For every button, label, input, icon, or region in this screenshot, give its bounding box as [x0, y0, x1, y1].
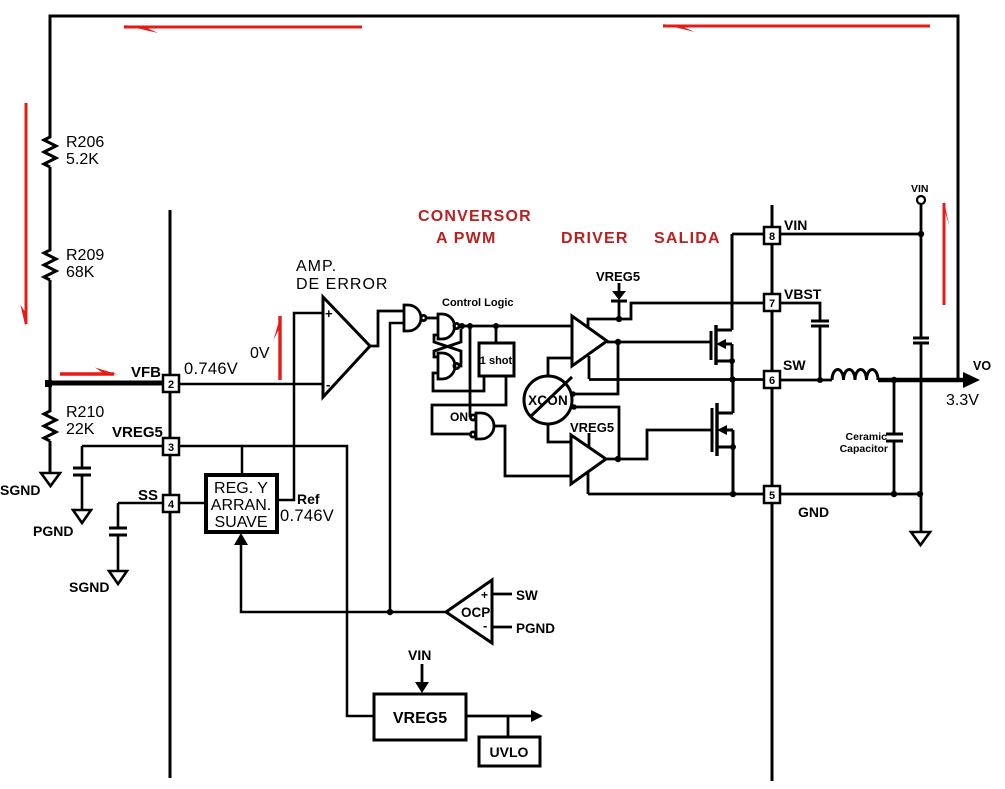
pin 5 GND: [764, 486, 780, 503]
wire SW rail: [589, 378, 764, 381]
wire junction down to 1 shot: [495, 326, 498, 343]
svg-text:REG. Y: REG. Y: [214, 480, 268, 497]
wire latch output to driver: [459, 325, 572, 328]
svg-text:VREG5: VREG5: [596, 269, 640, 284]
pin 4 SS: [163, 495, 179, 512]
svg-text:VFB: VFB: [131, 364, 161, 381]
wire SS pin4 left to cap: [118, 502, 164, 505]
svg-text:Control Logic: Control Logic: [442, 297, 514, 309]
svg-text:XCON: XCON: [528, 393, 568, 408]
svg-text:Capacitor: Capacitor: [840, 443, 888, 455]
svg-text:PGND: PGND: [33, 523, 73, 539]
node XCON right terminals: [570, 391, 576, 397]
wire lower driver supply stub: [588, 433, 591, 447]
node upper MOSFET body source tie: [729, 358, 735, 364]
svg-text:+: +: [325, 306, 333, 321]
node lower MOSFET body source tie: [730, 444, 736, 450]
svg-text:8: 8: [769, 231, 775, 243]
svg-text:VO: VO: [973, 359, 991, 373]
wire R209 to VFB node: [49, 280, 52, 383]
node VIN rail junction: [918, 231, 924, 237]
svg-text:22K: 22K: [66, 421, 95, 438]
svg-text:+: +: [481, 588, 488, 602]
wire VIN rail: [732, 233, 921, 236]
inductor L: [832, 370, 878, 381]
svg-text:6: 6: [769, 375, 775, 387]
block 1 shot: [479, 343, 514, 376]
wire lower driver output to MOSFET gate: [606, 430, 712, 459]
node lower driver output: [615, 456, 621, 462]
gate latch lower NAND: [438, 353, 459, 379]
svg-text:1 shot: 1 shot: [480, 355, 513, 367]
pin 7 VBST: [764, 294, 780, 311]
svg-text:0.746V: 0.746V: [280, 507, 334, 525]
red arrow top left: [123, 25, 362, 33]
svg-text:R206: R206: [66, 134, 104, 151]
gate latch upper NAND: [438, 314, 459, 339]
ground PGND: [73, 510, 91, 523]
svg-text:CONVERSOR: CONVERSOR: [418, 208, 532, 225]
red arrow left vertical down: [21, 103, 27, 327]
wire VFB pin2 to error amp minus: [179, 383, 323, 386]
node diode VBST junction: [616, 316, 622, 322]
svg-text:SW: SW: [516, 588, 538, 603]
svg-text:4: 4: [168, 499, 175, 511]
node bootstrap cap SW junction: [817, 377, 823, 383]
svg-text:SGND: SGND: [69, 579, 109, 595]
pin 3 VREG5: [163, 438, 179, 455]
svg-text:PGND: PGND: [516, 621, 555, 636]
capacitor input VIN: [913, 234, 929, 531]
arrow lower MOSFET body: [717, 425, 727, 435]
wire SS pin4 right to REG box: [179, 502, 206, 505]
wire R206 to R209: [49, 167, 52, 248]
svg-text:Ref: Ref: [297, 491, 320, 507]
svg-text:DRIVER: DRIVER: [561, 230, 629, 247]
gate ON: [470, 413, 494, 439]
svg-text:VBST: VBST: [784, 286, 822, 302]
transistor lower MOSFET: [712, 380, 733, 494]
arrow VREG5 output: [531, 710, 543, 722]
capacitor bootstrap VBST: [780, 303, 829, 380]
driver lower triangle: [571, 435, 606, 484]
svg-text:68K: 68K: [66, 264, 95, 281]
capacitor C SS: [109, 503, 127, 570]
wire amp output to NAND1: [370, 311, 404, 346]
wire VREG5 pin3 left to cap: [82, 445, 164, 448]
gate NAND1: [404, 305, 426, 331]
pin 2 VFB: [163, 375, 179, 392]
wire GND rail: [588, 493, 764, 496]
pin 8 VIN: [764, 227, 780, 244]
svg-text:ARRAN.: ARRAN.: [211, 497, 271, 514]
wire VREG5 output with arrow: [466, 715, 531, 718]
wire OCP junction up to NAND1 input: [390, 323, 404, 612]
svg-text:5: 5: [769, 490, 775, 502]
svg-text:VREG5: VREG5: [112, 424, 163, 441]
wire R210 to SGND: [49, 441, 52, 472]
red arrow 0V up: [274, 314, 282, 380]
node GND input cap junction: [917, 491, 923, 497]
wire NAND1 output to latch: [426, 317, 438, 320]
terminal VIN circle: [917, 196, 925, 204]
circle XCON: [524, 376, 572, 424]
svg-text:SGND: SGND: [0, 482, 40, 498]
wire VREG5 pin3 right: [179, 446, 374, 716]
wire latch cross coupling X: [434, 329, 461, 366]
svg-text:2: 2: [168, 379, 174, 391]
svg-text:3.3V: 3.3V: [946, 392, 979, 409]
svg-text:ON: ON: [450, 410, 468, 424]
wire VFB node to R210: [49, 383, 52, 409]
resistor R209: [44, 248, 56, 280]
svg-text:0.746V: 0.746V: [184, 360, 238, 378]
wire XCON to lower driver output: [574, 407, 619, 459]
svg-text:7: 7: [769, 298, 775, 310]
node OCP line junction: [387, 609, 393, 615]
wire XCON top to upper driver: [548, 358, 572, 376]
svg-text:Ceramic: Ceramic: [846, 431, 888, 443]
wire VIN rail up to terminal: [920, 204, 923, 234]
red arrow right vertical up: [944, 201, 950, 305]
svg-text:SALIDA: SALIDA: [654, 230, 721, 247]
resistor R210: [44, 409, 56, 441]
wire latch output down to ON gate upper input: [469, 326, 472, 417]
red arrow VFB current: [60, 368, 118, 375]
svg-text:UVLO: UVLO: [490, 744, 529, 760]
block REG Y ARRAN SUAVE: [206, 475, 277, 532]
node latch output junctions: [459, 323, 465, 329]
pin 6 SW: [764, 371, 780, 388]
svg-text:A PWM: A PWM: [436, 230, 497, 247]
wire OCP output to REG arrow: [241, 545, 446, 612]
wire latch lower gate bottom input wrap: [433, 373, 484, 391]
wire ON gate output to lower driver: [494, 426, 571, 476]
svg-text:VREG5: VREG5: [570, 420, 614, 435]
wire branch to UVLO: [507, 716, 510, 737]
block VREG5 regulator: [374, 694, 466, 740]
svg-text:VIN: VIN: [784, 217, 807, 233]
svg-text:-: -: [326, 377, 330, 392]
driver upper triangle: [572, 316, 607, 366]
ground SGND left: [41, 473, 60, 486]
arrow upper MOSFET body: [716, 339, 726, 349]
svg-text:AMP.: AMP.: [296, 258, 337, 275]
IC left boundary line: [169, 210, 172, 778]
wire top feedback rail: [50, 16, 958, 379]
wire OCP plus input SW: [492, 593, 512, 596]
svg-text:-: -: [483, 618, 487, 633]
wire VO rail thick: [878, 378, 964, 383]
svg-text:VREG5: VREG5: [393, 710, 447, 727]
capacitor C VREG5 bypass: [73, 446, 91, 509]
wire VREG5 branch to REG box top: [241, 446, 244, 475]
arrow into REG box bottom: [234, 533, 248, 545]
svg-text:3: 3: [168, 442, 174, 454]
ground SGND 2: [109, 571, 127, 584]
ground right power: [911, 532, 930, 545]
svg-text:SW: SW: [783, 357, 806, 373]
capacitor ceramic output: [886, 380, 903, 494]
resistor R206: [44, 135, 56, 167]
wire Ref output to amp plus: [277, 313, 323, 500]
wire XCON bottom to lower driver: [548, 424, 571, 442]
diode bootstrap from VREG5: [611, 283, 627, 319]
node ceramic cap GND junction: [891, 491, 897, 497]
wire upper driver supply stub to VBST rail: [588, 303, 764, 327]
wire lower driver return stub to GND: [587, 471, 590, 494]
wire OCP minus input PGND: [492, 626, 512, 629]
svg-text:R209: R209: [66, 247, 104, 264]
node VFB junction: [45, 380, 52, 387]
wire 1 shot output wrap to ON gate lower input: [432, 376, 506, 434]
node SW MOSFET junction: [729, 376, 735, 382]
node VO ceramic cap junction: [891, 377, 897, 383]
node GND MOSFET junction: [730, 491, 736, 497]
wire upper driver return stub to SW: [588, 356, 591, 379]
red arrow top right: [662, 24, 930, 32]
op-amp error amplifier: [323, 297, 370, 397]
arrow VIN into VREG5 box: [415, 664, 429, 693]
wire VFB thick: [48, 381, 164, 386]
comparator OCP: [446, 580, 492, 643]
svg-text:VIN: VIN: [911, 183, 929, 195]
node upper driver output: [615, 339, 621, 345]
svg-text:GND: GND: [798, 504, 829, 520]
svg-text:VIN: VIN: [408, 647, 431, 663]
svg-text:0V: 0V: [250, 345, 270, 362]
block UVLO: [479, 737, 540, 766]
svg-text:DE ERROR: DE ERROR: [296, 276, 388, 293]
arrow VO output: [963, 372, 980, 388]
transistor upper MOSFET: [711, 234, 732, 380]
wire upper driver output to MOSFET gate: [607, 341, 711, 344]
svg-text:SUAVE: SUAVE: [214, 514, 267, 531]
svg-text:R210: R210: [66, 404, 104, 421]
svg-text:SS: SS: [138, 487, 158, 504]
IC right boundary line: [771, 205, 774, 781]
wire upper driver output to XCON: [573, 342, 618, 394]
LEFT DIVIDER CHAIN: [44, 135, 56, 472]
svg-text:5.2K: 5.2K: [66, 151, 99, 168]
